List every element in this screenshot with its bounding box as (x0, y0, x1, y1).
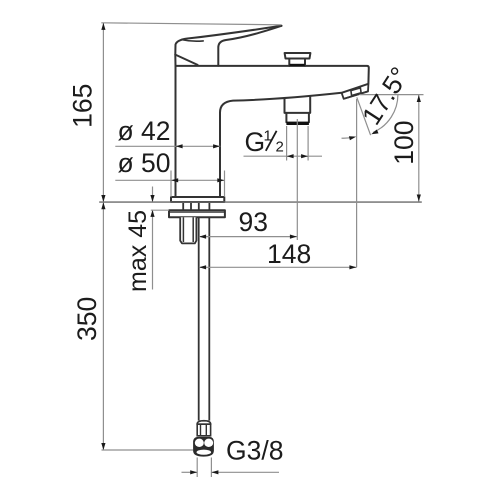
svg-text:148: 148 (267, 239, 311, 269)
dimension max 45 (152, 187, 154, 203)
dimension G1/2 (286, 126, 288, 161)
aerator at spout tip (342, 84, 369, 99)
svg-text:2: 2 (276, 138, 284, 155)
svg-text:ø 50: ø 50 (118, 148, 171, 178)
svg-text:G3/8: G3/8 (226, 435, 283, 465)
dimension 350 (102, 202, 104, 450)
dimension G3/8 (196, 458, 198, 478)
hose crimp collar (197, 421, 210, 425)
washer and lock nut under deck (169, 210, 225, 217)
handle chin line (175, 55, 197, 65)
dimension dia 50 (115, 179, 225, 181)
hose crimp body (197, 424, 210, 436)
dimension 165 (101, 23, 281, 25)
faucet handle lever (175, 26, 281, 66)
handle crease (182, 40, 204, 42)
threaded shank (180, 217, 196, 243)
G3/8 nut (193, 437, 214, 457)
svg-text:G: G (245, 127, 266, 157)
dimension angle 17.5 (360, 94, 424, 96)
dimension 100 (418, 95, 420, 202)
escutcheon base plate (171, 197, 224, 202)
svg-text:350: 350 (72, 297, 102, 341)
faucet body outline (175, 66, 177, 197)
dimension dia 42 (115, 145, 220, 147)
dimension 148 (199, 266, 357, 268)
svg-text:max 45: max 45 (124, 210, 152, 292)
dimension 93 (199, 236, 297, 238)
svg-text:165: 165 (68, 84, 98, 128)
G1/2 shower outlet block (285, 97, 311, 113)
countertop mounting surface line (99, 201, 422, 203)
mounting stud above locknut (183, 202, 191, 210)
supply hose through deck (199, 202, 210, 420)
svg-text:93: 93 (239, 207, 268, 237)
svg-text:ø 42: ø 42 (118, 116, 171, 146)
diverter knob (285, 53, 311, 59)
svg-text:100: 100 (389, 120, 419, 164)
